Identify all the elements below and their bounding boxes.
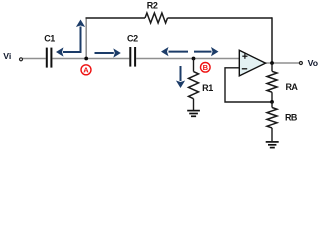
node A red circle — [81, 65, 91, 75]
capacitor C2 — [129, 47, 131, 67]
node B junction dot — [192, 57, 196, 61]
wire C1 to C2 — [53, 58, 130, 60]
wire C2 to op-amp — [136, 58, 239, 60]
capacitor C1 — [46, 48, 48, 68]
ground below RB — [266, 141, 279, 143]
op-amp U1 — [239, 50, 265, 76]
node output junction dot — [270, 61, 274, 65]
terminal Vo — [299, 62, 302, 65]
wire feedback from inverting input — [225, 68, 271, 102]
arrow down at R1 — [180, 66, 182, 81]
wire op-amp output to Vo — [265, 62, 299, 64]
svg-text:Vo: Vo — [308, 58, 318, 68]
svg-text:C1: C1 — [44, 33, 55, 43]
arrow right at node B — [194, 51, 212, 53]
resistor RB — [267, 108, 277, 128]
wire node B down to R1 — [193, 59, 195, 72]
resistor R1 — [189, 72, 199, 99]
wire RA to junction — [271, 92, 273, 102]
svg-text:Vi: Vi — [3, 51, 11, 61]
terminal Vi — [20, 58, 23, 61]
wire Vi to C1 — [23, 58, 46, 60]
wire RB to ground — [271, 128, 273, 141]
svg-text:C2: C2 — [127, 33, 138, 43]
svg-text:A: A — [83, 66, 89, 75]
wire top rail right segment — [168, 17, 273, 19]
svg-text:R2: R2 — [147, 0, 158, 10]
ground below R1 — [187, 110, 200, 112]
arrow left at node B — [169, 51, 189, 53]
svg-text:RA: RA — [286, 82, 299, 92]
svg-text:RB: RB — [285, 113, 298, 123]
node A junction dot — [84, 57, 88, 61]
wire junction to RB — [271, 102, 273, 108]
resistor RA — [267, 71, 277, 92]
arrow left at node A — [63, 51, 81, 53]
wire R1 to ground — [193, 99, 195, 110]
wire output node down to RA — [271, 63, 273, 71]
wire top rail left segment — [86, 17, 146, 19]
node B red circle — [201, 63, 211, 73]
svg-text:R1: R1 — [202, 83, 213, 93]
svg-text:B: B — [203, 63, 209, 72]
wire node A up to top rail — [85, 19, 87, 59]
wire right vertical from top rail to output node — [271, 17, 273, 63]
resistor R2 — [145, 13, 168, 23]
arrow up at node A — [80, 27, 82, 53]
arrow right at node A — [95, 52, 114, 54]
node RA-RB junction dot — [270, 100, 274, 104]
